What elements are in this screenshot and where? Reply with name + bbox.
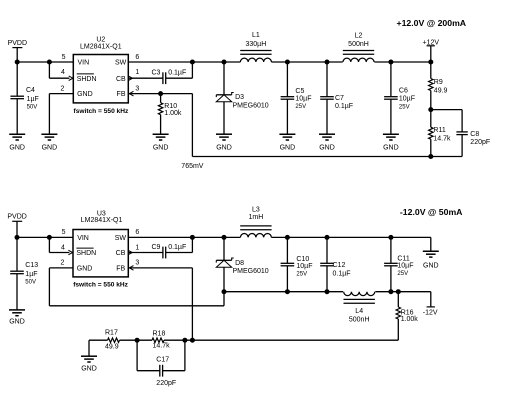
svg-text:220pF: 220pF bbox=[156, 380, 176, 387]
svg-text:SW: SW bbox=[115, 60, 127, 67]
svg-text:C17: C17 bbox=[156, 357, 169, 364]
svg-text:FB: FB bbox=[116, 265, 125, 272]
svg-text:25V: 25V bbox=[399, 105, 410, 111]
svg-text:fswitch = 550 kHz: fswitch = 550 kHz bbox=[74, 108, 129, 115]
svg-text:L2: L2 bbox=[355, 33, 363, 40]
svg-text:SHDN: SHDN bbox=[77, 76, 97, 83]
svg-text:U2: U2 bbox=[96, 36, 105, 43]
svg-text:14.7k: 14.7k bbox=[153, 343, 171, 350]
svg-text:GND: GND bbox=[42, 144, 58, 151]
svg-text:0.1µF: 0.1µF bbox=[168, 244, 186, 251]
svg-text:GND: GND bbox=[81, 366, 97, 373]
svg-text:25V: 25V bbox=[296, 272, 307, 278]
svg-text:VIN: VIN bbox=[77, 235, 89, 242]
svg-text:C3: C3 bbox=[152, 70, 161, 77]
svg-text:fswitch = 550 kHz: fswitch = 550 kHz bbox=[73, 281, 128, 288]
svg-text:GND: GND bbox=[77, 265, 93, 272]
svg-text:SHDN: SHDN bbox=[76, 250, 96, 257]
svg-text:C13: C13 bbox=[25, 262, 38, 269]
svg-text:GND: GND bbox=[9, 144, 25, 151]
svg-text:1µF: 1µF bbox=[27, 96, 39, 103]
svg-text:R10: R10 bbox=[164, 103, 177, 110]
svg-text:C12: C12 bbox=[333, 262, 346, 269]
svg-text:220pF: 220pF bbox=[470, 139, 490, 146]
svg-text:C5: C5 bbox=[295, 88, 304, 95]
svg-text:CB: CB bbox=[116, 76, 126, 83]
svg-text:1: 1 bbox=[135, 244, 139, 251]
svg-text:L4: L4 bbox=[355, 308, 363, 315]
svg-text:CB: CB bbox=[116, 250, 126, 257]
svg-text:50V: 50V bbox=[25, 280, 36, 286]
svg-text:C4: C4 bbox=[26, 87, 35, 94]
svg-text:10µF: 10µF bbox=[399, 95, 415, 102]
svg-text:-12.0V @ 50mA: -12.0V @ 50mA bbox=[400, 207, 463, 217]
svg-text:C6: C6 bbox=[399, 87, 408, 94]
svg-text:R11: R11 bbox=[433, 127, 445, 134]
svg-text:C9: C9 bbox=[152, 244, 161, 251]
svg-text:L1: L1 bbox=[252, 32, 260, 39]
svg-text:765mV: 765mV bbox=[181, 163, 204, 170]
svg-text:SW: SW bbox=[115, 235, 127, 242]
svg-text:LM2841X-Q1: LM2841X-Q1 bbox=[80, 44, 122, 51]
svg-text:FB: FB bbox=[117, 91, 126, 98]
svg-text:1mH: 1mH bbox=[249, 214, 264, 221]
svg-text:L3: L3 bbox=[252, 206, 260, 213]
svg-text:+12.0V @ 200mA: +12.0V @ 200mA bbox=[397, 18, 467, 28]
svg-text:R9: R9 bbox=[434, 79, 443, 86]
svg-text:PMEG6010: PMEG6010 bbox=[233, 103, 269, 110]
svg-text:5: 5 bbox=[62, 229, 66, 236]
svg-text:C7: C7 bbox=[335, 95, 344, 102]
svg-text:6: 6 bbox=[135, 54, 139, 61]
svg-text:49.9: 49.9 bbox=[434, 87, 448, 94]
svg-text:GND: GND bbox=[77, 91, 93, 98]
svg-text:0.1µF: 0.1µF bbox=[333, 270, 351, 277]
svg-text:GND: GND bbox=[423, 262, 439, 269]
svg-text:PVDD: PVDD bbox=[8, 40, 27, 47]
svg-text:50V: 50V bbox=[27, 105, 38, 111]
svg-text:LM2841X-Q1: LM2841X-Q1 bbox=[81, 217, 123, 224]
svg-text:D3: D3 bbox=[235, 94, 244, 101]
svg-text:6: 6 bbox=[135, 229, 139, 236]
svg-text:R18: R18 bbox=[153, 330, 166, 337]
svg-text:GND: GND bbox=[153, 144, 169, 151]
svg-text:GND: GND bbox=[9, 319, 25, 326]
svg-text:C8: C8 bbox=[470, 131, 479, 138]
svg-text:1.00k: 1.00k bbox=[164, 110, 182, 117]
svg-text:GND: GND bbox=[280, 144, 296, 151]
svg-text:1: 1 bbox=[135, 69, 139, 76]
svg-text:14.7k: 14.7k bbox=[433, 136, 451, 143]
svg-text:4: 4 bbox=[61, 69, 65, 76]
svg-text:GND: GND bbox=[216, 144, 232, 151]
svg-text:3: 3 bbox=[135, 260, 139, 267]
svg-text:2: 2 bbox=[60, 85, 64, 92]
svg-text:VIN: VIN bbox=[78, 60, 90, 67]
svg-text:25V: 25V bbox=[295, 104, 306, 110]
svg-text:PVDD: PVDD bbox=[7, 214, 26, 221]
svg-text:-12V: -12V bbox=[423, 310, 438, 317]
svg-text:1.00k: 1.00k bbox=[401, 316, 419, 323]
svg-text:2: 2 bbox=[60, 260, 64, 267]
svg-text:C10: C10 bbox=[296, 256, 309, 263]
svg-text:GND: GND bbox=[319, 144, 335, 151]
svg-text:10µF: 10µF bbox=[296, 263, 312, 270]
svg-text:500nH: 500nH bbox=[348, 41, 369, 48]
svg-text:D8: D8 bbox=[235, 260, 244, 267]
svg-text:1µF: 1µF bbox=[25, 271, 37, 278]
svg-text:0.1µF: 0.1µF bbox=[335, 103, 353, 110]
svg-text:0.1µF: 0.1µF bbox=[168, 70, 186, 77]
svg-text:330µH: 330µH bbox=[246, 41, 267, 48]
svg-text:5: 5 bbox=[62, 54, 66, 61]
svg-text:4: 4 bbox=[61, 244, 65, 251]
svg-text:R17: R17 bbox=[105, 330, 118, 337]
svg-text:PMEG6010: PMEG6010 bbox=[233, 268, 269, 275]
svg-text:C11: C11 bbox=[397, 255, 409, 262]
svg-text:500nH: 500nH bbox=[349, 317, 370, 324]
svg-text:25V: 25V bbox=[397, 271, 408, 277]
svg-text:49.9: 49.9 bbox=[105, 344, 119, 351]
svg-text:10µF: 10µF bbox=[397, 263, 413, 270]
svg-text:10µF: 10µF bbox=[295, 95, 311, 102]
svg-text:3: 3 bbox=[135, 85, 139, 92]
svg-text:GND: GND bbox=[383, 144, 399, 151]
